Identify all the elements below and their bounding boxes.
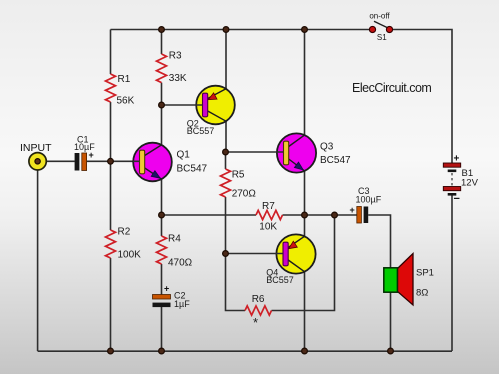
junction dot: Q1 emitter R4 bbox=[159, 212, 165, 218]
svg-text:R4: R4 bbox=[168, 234, 181, 245]
junction dot: R1 R2 Q1 base bbox=[108, 158, 114, 164]
resistor R4 bbox=[157, 236, 167, 264]
junction dot: R3 top rail bbox=[159, 27, 165, 33]
svg-text:INPUT: INPUT bbox=[20, 142, 52, 154]
svg-text:R5: R5 bbox=[232, 170, 245, 181]
junction dot: R5 Q4 base bbox=[223, 251, 229, 257]
svg-text:+: + bbox=[454, 154, 460, 165]
svg-text:BC557: BC557 bbox=[266, 275, 294, 285]
svg-text:BC557: BC557 bbox=[187, 126, 215, 136]
resistor R1 bbox=[106, 74, 116, 102]
wire Q3 base from R5 node bbox=[226, 151, 284, 153]
svg-text:SP1: SP1 bbox=[416, 268, 434, 279]
svg-text:33K: 33K bbox=[169, 73, 187, 84]
wire C1 to node at R1 column bbox=[87, 160, 134, 162]
svg-text:10µF: 10µF bbox=[74, 142, 95, 152]
junction dot: Q3 collector rail bbox=[302, 27, 308, 33]
svg-text:100K: 100K bbox=[118, 250, 142, 261]
resistor R6 bbox=[245, 306, 272, 315]
svg-text:56K: 56K bbox=[117, 96, 135, 107]
junction dot: output Q3 Q4 emitters bbox=[302, 212, 308, 218]
junction dot: C3 R6 feedback bbox=[332, 212, 338, 218]
transistor Q2 bbox=[196, 86, 235, 125]
svg-text:BC547: BC547 bbox=[320, 155, 351, 166]
svg-text:*: * bbox=[253, 315, 258, 330]
transistor Q1 bbox=[133, 143, 172, 182]
transistor Q3 bbox=[277, 133, 316, 172]
wire top rail left of switch bbox=[111, 29, 373, 31]
junction dot: R3 Q2 base bbox=[159, 102, 165, 108]
wire input jack to C1 bbox=[38, 160, 75, 162]
wire R1 R2 column bbox=[110, 30, 112, 352]
wire input jack down to bottom rail bbox=[37, 161, 39, 351]
junction dot: C2 ground bbox=[159, 348, 165, 354]
svg-text:Q3: Q3 bbox=[320, 142, 334, 153]
wire C3 to speaker column bbox=[368, 215, 390, 351]
capacitor C3 bbox=[350, 205, 369, 223]
svg-text:ElecCircuit.com: ElecCircuit.com bbox=[352, 81, 431, 95]
battery B1 bbox=[443, 154, 460, 206]
svg-text:R6: R6 bbox=[252, 294, 265, 305]
svg-text:+: + bbox=[164, 284, 169, 294]
svg-text:100µF: 100µF bbox=[356, 195, 382, 205]
wire bottom rail bbox=[38, 350, 452, 352]
resistor R5 bbox=[221, 169, 231, 197]
svg-text:S1: S1 bbox=[377, 33, 387, 42]
svg-text:Q1: Q1 bbox=[177, 150, 191, 161]
input jack bbox=[29, 153, 46, 170]
wire Q4 base from node bbox=[226, 253, 284, 255]
svg-text:R1: R1 bbox=[118, 74, 131, 85]
svg-text:+: + bbox=[350, 205, 355, 215]
junction dot: Q4 collector ground bbox=[302, 348, 308, 354]
wire battery negative to bottom rail bbox=[451, 196, 453, 352]
svg-text:8Ω: 8Ω bbox=[416, 288, 428, 299]
svg-text:R7: R7 bbox=[262, 201, 275, 212]
capacitor C1 bbox=[75, 150, 94, 171]
resistor R2 bbox=[106, 230, 116, 258]
junction dot: Q2 emitter rail bbox=[223, 27, 229, 33]
junction dot: R2 ground bbox=[108, 348, 114, 354]
svg-text:270Ω: 270Ω bbox=[232, 189, 257, 200]
junction dot: speaker ground bbox=[388, 348, 394, 354]
svg-text:R2: R2 bbox=[118, 227, 131, 238]
resistor R7 bbox=[256, 210, 283, 219]
svg-text:on-off: on-off bbox=[369, 12, 390, 21]
wire Q2 emitter-collector column bbox=[225, 30, 227, 153]
junction dot: Q2 collector Q3 base bbox=[223, 149, 229, 155]
wire R6 right to C3 output node bbox=[272, 215, 335, 311]
resistor R3 bbox=[157, 54, 167, 83]
wire Q3 Q4 column bbox=[304, 30, 306, 352]
wire midrail Q1 emitter to R7 bbox=[162, 214, 257, 216]
svg-text:BC547: BC547 bbox=[177, 164, 208, 175]
wire R7 to output node and C3 bbox=[283, 214, 357, 216]
transistor Q4 bbox=[276, 234, 315, 273]
wire R3 R4 C2 column bbox=[161, 30, 163, 352]
svg-text:10K: 10K bbox=[259, 222, 277, 233]
svg-text:470Ω: 470Ω bbox=[168, 258, 193, 269]
wire Q2 base from R3 node bbox=[162, 104, 203, 106]
svg-text:12V: 12V bbox=[461, 178, 479, 189]
capacitor C2 bbox=[153, 284, 171, 308]
wire Q1 base into bar bbox=[133, 160, 140, 162]
switch S1 bbox=[369, 21, 392, 32]
svg-text:−: − bbox=[454, 193, 460, 205]
svg-text:1µF: 1µF bbox=[174, 299, 190, 309]
wire top rail right of switch to battery bbox=[390, 30, 453, 164]
wire R5 column and feedback path to R6 bbox=[226, 152, 246, 311]
svg-text:R3: R3 bbox=[169, 51, 182, 62]
speaker SP1 bbox=[384, 254, 413, 306]
